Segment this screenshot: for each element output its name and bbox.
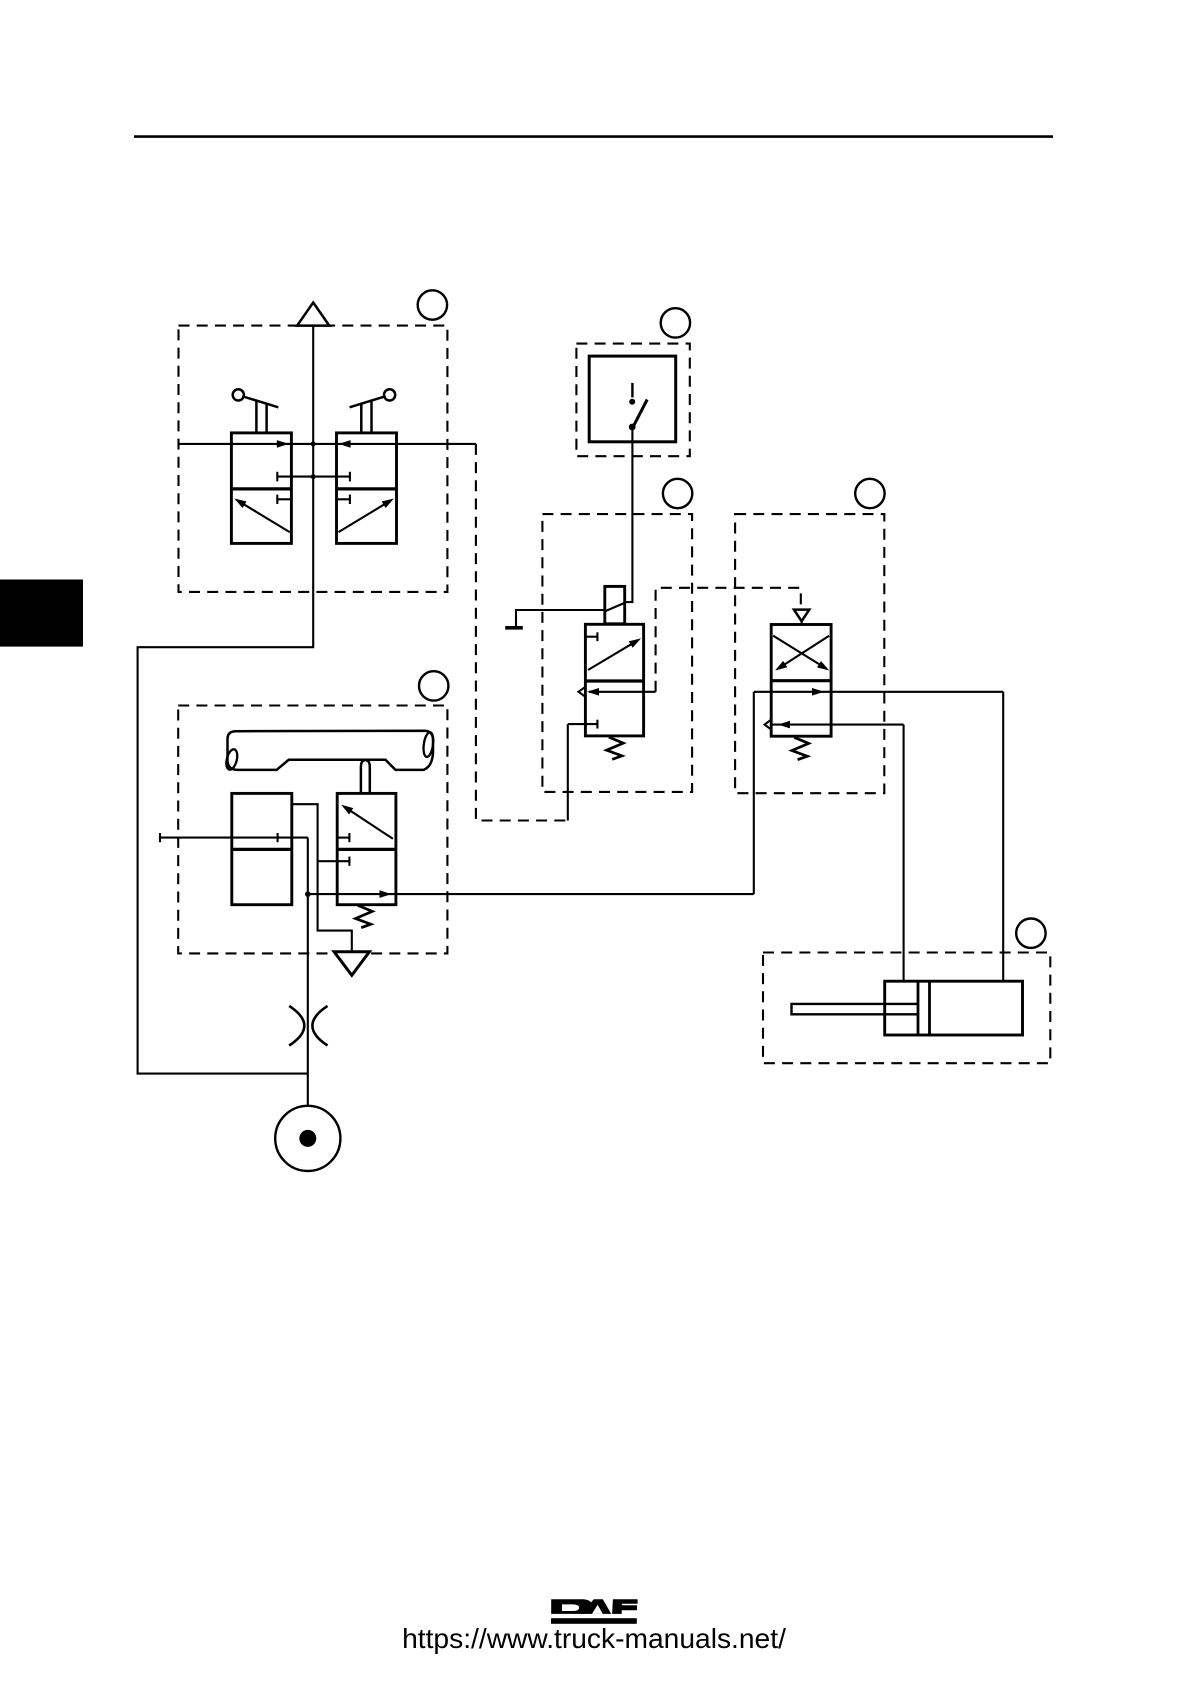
solenoid valve body — [585, 624, 643, 736]
cross flow arrows, relay valve upper block — [773, 636, 826, 669]
arrow in clutch valve lower flow path — [380, 890, 392, 898]
exhaust triangle (bottom of clutch valve box, pointing down) — [334, 952, 369, 976]
exhaust seat chevron — [579, 687, 586, 697]
pilot triangle into relay valve — [794, 610, 809, 622]
callout circle 5 — [419, 671, 448, 700]
exhaust path, relay valve lower block — [771, 724, 903, 726]
wire: switch to solenoid — [625, 430, 633, 602]
wire: hand valve supply line — [179, 443, 476, 445]
clutch valve body — [337, 793, 396, 904]
pilot wire to solenoid valve port — [567, 724, 569, 820]
wire: cylinder line right — [1002, 692, 1004, 981]
node: cross link junction — [311, 474, 316, 479]
cylinder body — [885, 981, 1023, 1035]
lever of V1 — [233, 389, 279, 433]
node: center line / supply line junction — [311, 441, 316, 446]
callout circle 2 — [661, 308, 690, 337]
exhaust triangle (top, pointing up) — [297, 303, 329, 326]
spring, solenoid valve — [607, 737, 624, 759]
blocked exhaust port, clutch valve lower block — [318, 860, 350, 862]
ground wire — [516, 610, 605, 627]
pilot signal line solenoid valve to relay valve (dashed) — [656, 588, 801, 692]
blocked port, solenoid valve upper block — [585, 636, 597, 638]
wire: cylinder line left — [903, 725, 905, 982]
blocked port, clutch valve upper block — [337, 837, 349, 839]
compressed air source (pump circle with dot) — [275, 1106, 340, 1171]
clutch pedal — [228, 731, 434, 770]
callout circle 3 — [663, 479, 692, 508]
enclosure box 3 (solenoid valve, dashed) — [542, 514, 692, 792]
blocked port in V1 lower block — [277, 498, 291, 500]
exhaust seat chevron, relay valve — [765, 720, 772, 730]
enclosure box 5 (clutch pedal valve, dashed) — [178, 706, 447, 954]
flow path, relay valve lower block (supply to cylinder) — [754, 691, 1003, 693]
pedal right end ellipse — [422, 732, 435, 758]
left margin tab (black block) — [0, 580, 83, 647]
DAF logo — [551, 1599, 638, 1624]
exhaust flow path, solenoid valve lower block — [589, 691, 656, 693]
callout circle 6 — [1016, 919, 1045, 948]
lever of V2 — [350, 389, 396, 433]
svg-text:https://www.truck-manuals.net/: https://www.truck-manuals.net/ — [402, 1622, 786, 1654]
pilot line from hand valves (dashed) — [476, 444, 568, 821]
pedal plunger stem — [361, 760, 370, 793]
relay valve body — [771, 625, 831, 737]
spring, clutch valve — [356, 905, 373, 927]
blocked pilot port, solenoid valve lower-left — [568, 723, 598, 725]
callout circle 1 — [418, 290, 447, 319]
wire: relay valve supply riser — [753, 692, 755, 894]
wire: servo box upper port to exhaust drop — [292, 804, 352, 952]
page header rule — [134, 135, 1053, 138]
arrow path in V1 lower block — [238, 501, 290, 532]
arrow in valve V1 flow path — [277, 440, 289, 448]
arrow in valve V2 flow path — [339, 440, 351, 448]
hand valve V2 body — [337, 433, 397, 544]
hand valve V1 body — [231, 433, 291, 544]
enclosure box 4 (relay valve, dashed) — [735, 514, 884, 793]
restrictor (throttle) — [289, 1006, 304, 1046]
ground symbol — [505, 626, 523, 630]
servo box body — [232, 793, 292, 904]
pedal left end ellipse — [224, 748, 239, 771]
spring, relay valve — [792, 737, 809, 759]
callout circle 4 — [855, 479, 884, 508]
solenoid coil U1 — [605, 586, 625, 623]
wire: exhaust center line down, left, down to supply junction — [138, 326, 314, 1074]
wire: supply into servo box (blocked end outside) — [160, 837, 308, 839]
blocked port tick inside servo box — [277, 833, 279, 842]
arrow path, solenoid valve upper block — [588, 641, 638, 671]
enclosure box 6 (cylinder, dashed) — [763, 953, 1050, 1064]
node: supply tee to relay valve — [305, 891, 311, 897]
arrow path in V2 lower block — [339, 501, 391, 532]
arrow path, clutch valve upper block — [345, 807, 393, 839]
enclosure box 2 (switch, dashed) — [576, 344, 689, 457]
piston — [917, 981, 920, 1035]
switch S1 outline — [589, 356, 676, 442]
piston rod — [792, 1004, 919, 1014]
wire: supply riser / main feed — [307, 838, 309, 1106]
wire: feed to relay valve — [308, 893, 754, 895]
blocked port in V2 lower block — [337, 498, 350, 500]
switch S1 contact — [632, 383, 647, 427]
enclosure box 1 (hand control valves, dashed) — [179, 326, 448, 592]
wire: cross link between V1 and V2 (blocked ends) — [277, 476, 350, 478]
